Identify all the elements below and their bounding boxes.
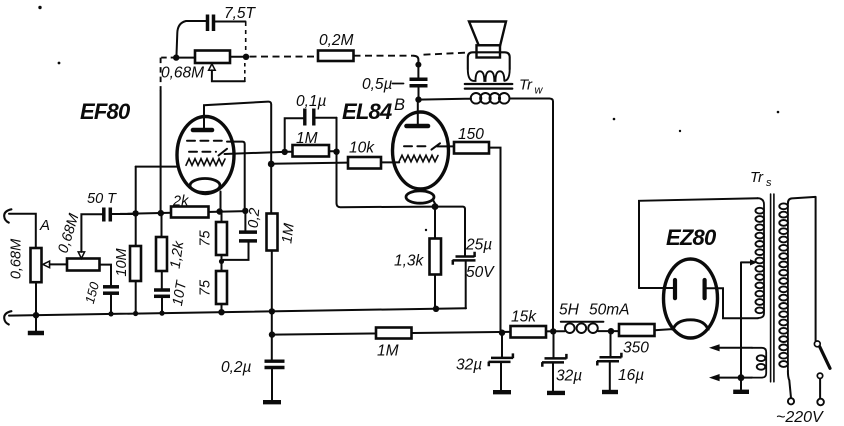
wire B to Trw primary: [419, 98, 472, 101]
junction EF80 cathode node: [216, 208, 222, 214]
wire 350 to EZ80: [655, 329, 675, 330]
wire P2 right to C150: [100, 265, 111, 286]
svg-text:25µ: 25µ: [465, 237, 492, 254]
EL84 dash tick: [432, 143, 441, 149]
wire C anode tap to 10k: [271, 163, 348, 164]
EL84 anode bar: [407, 124, 429, 129]
Trw core: [465, 84, 513, 89]
capacitor 16u: [610, 331, 612, 356]
svg-text:EF80: EF80: [80, 99, 131, 124]
capacitor 0,2 stem: [244, 211, 246, 231]
potentiometer P1 0,68M vertical: [31, 248, 42, 282]
svg-text:EL84: EL84: [342, 99, 392, 124]
Trs primary winding line: [787, 204, 789, 371]
resistor 10M: [130, 246, 141, 281]
Trs HV winding line: [758, 198, 765, 318]
junction feedback/1,2k node: [158, 210, 164, 216]
wiper arrow P2: [78, 252, 84, 259]
EL84 cathode lead: [433, 200, 435, 207]
wire cathode to 25u: [435, 207, 465, 256]
grid return vertical to EL84 cathode: [337, 118, 436, 208]
speaker driver: [477, 45, 501, 57]
capacitor 0,2: [239, 230, 257, 234]
wire jack A to pot: [9, 214, 36, 248]
EL84 grid dashes: [404, 145, 430, 147]
speaker horn: [469, 22, 506, 46]
resistor 75 upper: [216, 222, 227, 255]
svg-text:w: w: [535, 85, 544, 97]
capacitor 0,2 hook to 75 midpoint: [223, 243, 249, 260]
junction grid coupling left (1M/0,1u): [282, 149, 288, 155]
resistor 1M bottom: [376, 328, 412, 339]
junction 75/75 midpoint: [219, 259, 224, 264]
switch lower contact: [817, 373, 822, 378]
svg-text:5H: 5H: [559, 302, 580, 319]
EF80 zigzag: [186, 159, 225, 166]
Trs center tap wire: [741, 262, 750, 377]
wire 7,5T left lead: [177, 21, 207, 55]
potentiometer P2 0,68M horizontal: [67, 259, 100, 271]
svg-text:1M: 1M: [279, 222, 297, 245]
resistor 1,2k: [156, 237, 167, 271]
EZ80 top rail: [639, 198, 758, 288]
Trs primary loops: [779, 203, 788, 366]
junction 1,3k ground rail: [433, 306, 439, 312]
EF80 anode bar: [193, 128, 212, 133]
junction screen bypass node: [242, 208, 248, 214]
scan specks: [38, 6, 779, 231]
capacitor 50T: [102, 208, 106, 222]
svg-text:50V: 50V: [466, 264, 495, 281]
EF80 cathode lead: [220, 192, 222, 212]
wire 10M to rail: [135, 281, 137, 314]
junction 10T ground rail: [159, 311, 164, 316]
wire 75 chain: [221, 211, 223, 312]
feedback vertical from top pot: [161, 58, 177, 91]
resistor 0,2M: [318, 51, 354, 62]
EF80 dash tick: [219, 149, 228, 156]
capacitor 32u first: [501, 333, 503, 357]
potentiometer 0,68M top: [195, 51, 230, 64]
junction feedback bus corner: [415, 62, 421, 68]
svg-text:0,1µ: 0,1µ: [296, 93, 327, 110]
junction 75 ground rail: [218, 309, 224, 315]
ground input: [35, 315, 37, 331]
wire B screen to 2k row: [227, 142, 245, 211]
main ground rail: [9, 308, 466, 315]
svg-text:0,2µ: 0,2µ: [221, 359, 252, 376]
wire C50T to node: [112, 213, 136, 215]
resistor 150 screen: [454, 142, 489, 154]
EF80 anode lead to top: [204, 102, 271, 214]
input jack top: [4, 209, 11, 222]
resistor 15k: [511, 326, 547, 338]
svg-text:150: 150: [458, 126, 484, 143]
svg-text:0,5µ: 0,5µ: [362, 76, 393, 93]
Trs primary top lead: [788, 197, 816, 341]
svg-text:15k: 15k: [511, 309, 537, 326]
svg-text:s: s: [766, 177, 772, 189]
junction 1M-vertical ground rail: [269, 308, 275, 314]
EL84 cathode mini ellipse: [406, 191, 434, 203]
wire 1,2k to 10T: [161, 271, 163, 289]
capacitor 10T: [154, 288, 170, 292]
input jack bottom: [4, 311, 11, 324]
capacitor 0,2u ground: [271, 369, 273, 400]
wire grid column 10M: [135, 167, 137, 247]
junction B+ screen feed / 15k / 32u: [499, 330, 505, 336]
capacitor 150: [103, 285, 119, 289]
svg-text:10M: 10M: [114, 247, 130, 276]
svg-text:50 T: 50 T: [87, 191, 117, 207]
svg-text:~220V: ~220V: [776, 409, 824, 426]
dashed bus right of 0,2M: [354, 55, 414, 57]
resistor 350: [611, 330, 619, 332]
mains terminal left: [788, 398, 794, 404]
wire zigzag lead EF80: [136, 166, 179, 168]
junction B+ anode feed / 15k / 32u: [550, 328, 556, 334]
tube EZ80 envelope: [664, 259, 718, 338]
EL84 screen wire to 150: [437, 145, 454, 147]
EZ80 filament arch: [673, 320, 709, 331]
junction 10M ground rail: [133, 311, 138, 316]
pot top leads: [176, 56, 246, 59]
resistor 1,2k top lead: [161, 213, 163, 237]
Trs center tap arrow: [750, 259, 757, 265]
wire 10T to rail: [161, 298, 163, 313]
heater wire lower with arrow: [719, 377, 752, 379]
wire pot bottom to rail: [35, 282, 37, 315]
svg-text:0,2M: 0,2M: [319, 32, 354, 49]
svg-text:75: 75: [198, 230, 214, 247]
capacitor 0,5u: [410, 77, 428, 81]
riser 0,1u left: [285, 118, 304, 152]
EL84 zigzag: [399, 155, 438, 161]
junction choke / 350 / 16u: [608, 328, 614, 334]
capacitor 32u second: [553, 331, 555, 357]
EZ80 right anode wire: [705, 288, 758, 318]
tube EF80 envelope: [177, 117, 234, 194]
wire 7,5T right lead: [215, 21, 246, 23]
svg-text:350: 350: [623, 340, 649, 357]
Trs center tap ground: [740, 378, 742, 390]
pot top wiper arrow: [209, 64, 216, 71]
wire to mains terminal right: [819, 379, 821, 399]
wire 150 to B+ column: [489, 148, 501, 333]
tube EL84 envelope: [393, 112, 449, 189]
junction center tap / heater return: [738, 374, 745, 381]
Trs core: [771, 194, 774, 382]
capacitor 0,1u: [303, 109, 306, 126]
wire wiper P2 up to C 50T: [81, 214, 102, 252]
Trs heater winding: [752, 348, 766, 378]
svg-text:Tr: Tr: [750, 169, 764, 186]
switch pivot: [814, 341, 820, 347]
resistor 2k: [171, 207, 209, 218]
svg-text:75: 75: [198, 279, 214, 296]
wiper arrow P1: [43, 261, 50, 268]
junction input pot ground: [33, 312, 39, 318]
svg-text:16µ: 16µ: [618, 367, 644, 384]
svg-text:1,3k: 1,3k: [394, 253, 425, 270]
EF80 grid dashes row1: [187, 140, 227, 142]
svg-text:2k: 2k: [172, 194, 189, 210]
Trs primary bottom lead: [788, 371, 791, 398]
EF80 cathode mini ellipse: [190, 179, 220, 193]
svg-text:1M: 1M: [377, 343, 399, 360]
pot top wiper wire: [212, 70, 245, 81]
svg-text:50mA: 50mA: [589, 302, 630, 319]
heater wire upper with arrow: [719, 347, 752, 349]
resistor 1M horizontal: [285, 150, 337, 152]
svg-text:0,68M: 0,68M: [161, 65, 204, 82]
EZ80 anode bars: [673, 280, 677, 298]
EZ80 left anode wire: [639, 287, 673, 289]
node row y213: [120, 211, 245, 214]
junction pot-top left terminal: [173, 54, 179, 60]
junction EF80 anode line tap: [268, 161, 275, 168]
node B junction EL84 anode: [415, 96, 421, 102]
capacitor 25u bottom stem: [465, 262, 467, 309]
wire 1M vertical to rails: [271, 251, 273, 360]
EL84 anode lead: [417, 100, 419, 126]
svg-text:0,68M: 0,68M: [9, 238, 25, 279]
svg-text:A: A: [39, 217, 50, 234]
capacitor 0,5u stem: [417, 65, 419, 78]
junction 50T/10M node: [132, 210, 138, 216]
dashed bus to speaker secondary: [424, 53, 466, 55]
dashed feedback bus to 0,2M: [250, 56, 319, 58]
svg-text:10k: 10k: [349, 140, 375, 157]
wire C150 to rail: [110, 295, 112, 314]
resistor 1M vertical: [267, 214, 278, 251]
capacitor 7,5T: [206, 15, 210, 32]
wire A grid: [225, 152, 285, 154]
junction pot-top right terminal / feedback bus: [243, 54, 249, 60]
svg-text:32µ: 32µ: [556, 368, 582, 385]
capacitor 0,5u lower stem: [418, 87, 420, 99]
Trw secondary box: [468, 52, 510, 69]
wire wiper P1 to P2: [50, 263, 68, 265]
choke 5H 50mA: [561, 321, 604, 323]
svg-text:EZ80: EZ80: [666, 225, 717, 250]
capacitor 0,2u: [265, 360, 285, 363]
switch blade: [820, 347, 830, 369]
junction lower rail left: [269, 331, 275, 337]
junction C150 ground rail: [108, 311, 113, 316]
svg-text:Tr: Tr: [519, 77, 533, 94]
resistor 1,3k: [434, 207, 436, 309]
capacitor 25u electrolytic: [456, 252, 475, 257]
svg-text:1M: 1M: [296, 130, 318, 147]
corner to node B branch: [414, 56, 419, 65]
wire 10k to EL84 grid: [381, 161, 399, 163]
Trw secondary loops: [468, 69, 510, 81]
Trs HV winding loops: [755, 208, 764, 313]
lower rail: [273, 331, 554, 334]
resistor 75 lower: [216, 271, 227, 304]
svg-text:7,5T: 7,5T: [224, 5, 257, 22]
EF80 grid dashes row2: [189, 151, 216, 153]
mains terminal right: [817, 399, 824, 406]
riser 0,1u right: [315, 117, 336, 119]
resistor 10k: [348, 157, 381, 169]
wire Trw primary right down: [509, 99, 553, 332]
junction EL84 cathode: [432, 203, 439, 210]
svg-text:B: B: [394, 96, 405, 114]
junction grid coupling right (1M/0,1u): [333, 149, 339, 155]
Trw primary loops: [471, 93, 482, 104]
svg-text:32µ: 32µ: [456, 357, 482, 374]
